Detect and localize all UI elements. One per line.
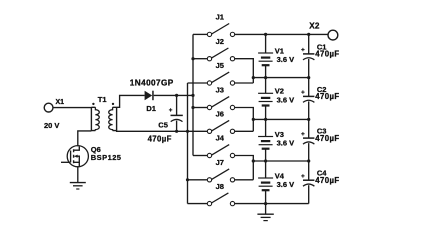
- switch J5: [207, 72, 234, 85]
- svg-text:3.6 V: 3.6 V: [277, 139, 295, 148]
- wire bus B to J4: [193, 155, 207, 157]
- wire rail N3: [253, 160, 308, 162]
- svg-text:470µF: 470µF: [148, 135, 172, 144]
- switch J1: [207, 24, 234, 37]
- junction C5 top: [175, 94, 178, 97]
- svg-text:470µF: 470µF: [315, 134, 339, 143]
- transformer T1 primary winding: [91, 107, 99, 131]
- wire J4 right jog: [235, 156, 254, 180]
- svg-text:J8: J8: [216, 182, 224, 191]
- junction top rail C1: [307, 33, 310, 36]
- terminal X2: [328, 30, 338, 40]
- wire bottom rail J8 to C4: [235, 203, 309, 205]
- wire diode cathode to bus B: [154, 94, 193, 96]
- switch J2: [207, 48, 234, 61]
- capacitor C3 plus sign: [301, 132, 304, 135]
- capacitor C5: [171, 95, 183, 131]
- transformer T1 secondary polarity dot: [112, 103, 114, 105]
- svg-text:X2: X2: [309, 21, 320, 30]
- svg-text:D1: D1: [146, 104, 156, 113]
- junction N3 C column: [307, 159, 310, 162]
- wire bus B to J3: [193, 107, 207, 109]
- transformer T1 primary polarity dot: [92, 103, 94, 105]
- capacitor C1: [303, 34, 314, 77]
- wire bus A to J5: [188, 82, 208, 84]
- svg-text:V4: V4: [275, 171, 285, 180]
- svg-text:3.6 V: 3.6 V: [277, 96, 295, 105]
- svg-text:V1: V1: [275, 46, 284, 55]
- svg-text:V3: V3: [275, 130, 284, 139]
- capacitor C4 plus sign: [301, 174, 304, 177]
- wire rail N1: [253, 77, 308, 79]
- transformer T1 secondary winding: [109, 107, 117, 131]
- wire bus A to J8: [188, 203, 208, 205]
- svg-text:J5: J5: [216, 61, 224, 70]
- junction N2 jog: [252, 118, 255, 121]
- svg-text:J7: J7: [216, 158, 224, 167]
- wire bus B to J2: [193, 58, 207, 60]
- wire Q6 source to ground: [77, 166, 79, 182]
- junction N1 chain: [264, 76, 267, 79]
- svg-text:470µF: 470µF: [315, 92, 339, 101]
- battery V3: [258, 119, 273, 161]
- junction bottom rail chain: [264, 202, 267, 205]
- svg-text:J4: J4: [216, 134, 225, 143]
- battery V1: [258, 34, 273, 77]
- bus B positive rail: [192, 34, 194, 155]
- switch J4: [207, 145, 234, 158]
- svg-text:J6: J6: [216, 110, 224, 119]
- svg-text:V2: V2: [275, 87, 284, 96]
- svg-text:J2: J2: [216, 37, 224, 46]
- switch J7: [207, 169, 234, 182]
- junction N1 C column: [307, 76, 310, 79]
- capacitor C4: [303, 161, 314, 204]
- svg-text:470µF: 470µF: [315, 50, 339, 59]
- junction N3 jog: [252, 159, 255, 162]
- svg-text:470µF: 470µF: [315, 176, 339, 185]
- wire J5 right: [235, 82, 254, 84]
- wire bus B to J1: [193, 33, 207, 35]
- svg-text:3.6 V: 3.6 V: [277, 180, 295, 189]
- junction bus B diode line: [191, 94, 194, 97]
- junction bus A J7: [186, 178, 189, 181]
- svg-text:3.6 V: 3.6 V: [277, 55, 295, 64]
- junction N1 jog: [252, 76, 255, 79]
- switch J8: [207, 193, 234, 206]
- wire rail N2: [253, 118, 308, 120]
- capacitor C3: [303, 119, 314, 161]
- capacitor C1 plus sign: [301, 48, 304, 51]
- transistor Q6: [67, 146, 88, 167]
- svg-text:1N4007GP: 1N4007GP: [130, 79, 174, 88]
- switch J3: [207, 97, 234, 110]
- wire J6 right: [235, 130, 254, 132]
- wire J2 right jog: [235, 59, 254, 83]
- junction N3 chain: [264, 159, 267, 162]
- wire X1 to T1 primary: [53, 107, 91, 109]
- svg-text:J3: J3: [216, 86, 224, 95]
- wire T1 primary bottom to Q6 drain: [78, 131, 92, 146]
- wire T1 secondary top to diode anode: [117, 95, 145, 107]
- diode D1: [145, 91, 154, 101]
- junction bus B J3: [191, 106, 194, 109]
- junction C5 bottom: [175, 130, 178, 133]
- battery V2: [258, 78, 273, 120]
- wire Q6 gate stub: [61, 161, 71, 163]
- svg-text:20 V: 20 V: [44, 121, 59, 130]
- capacitor C2 plus sign: [301, 90, 304, 93]
- battery V4: [258, 161, 273, 204]
- wire bus A to J7: [188, 179, 208, 181]
- junction top rail battery chain: [264, 33, 267, 36]
- capacitor C2: [303, 78, 314, 120]
- svg-text:J1: J1: [216, 13, 224, 22]
- junction N2 C column: [307, 118, 310, 121]
- svg-text:T1: T1: [98, 95, 107, 104]
- switch J6: [207, 120, 234, 133]
- junction bus A return line: [186, 130, 189, 133]
- capacitor C5 plus sign: [169, 108, 172, 111]
- wire top rail J1 to X2: [235, 33, 329, 35]
- svg-text:BSP125: BSP125: [91, 153, 122, 162]
- junction bus B J2: [191, 57, 194, 60]
- wire return line T1 secondary bottom to J6 left contact: [117, 130, 208, 132]
- svg-text:C5: C5: [158, 120, 168, 129]
- wire J7 right: [235, 179, 254, 181]
- wire ground stem battery chain: [265, 204, 267, 214]
- junction N2 chain: [264, 118, 267, 121]
- bus A negative rail: [187, 83, 189, 204]
- wire J3 right jog: [235, 108, 254, 132]
- svg-text:X1: X1: [56, 99, 65, 106]
- ground at Q6 source: [70, 183, 86, 189]
- ground at battery chain: [257, 214, 273, 220]
- terminal X1: [44, 103, 53, 112]
